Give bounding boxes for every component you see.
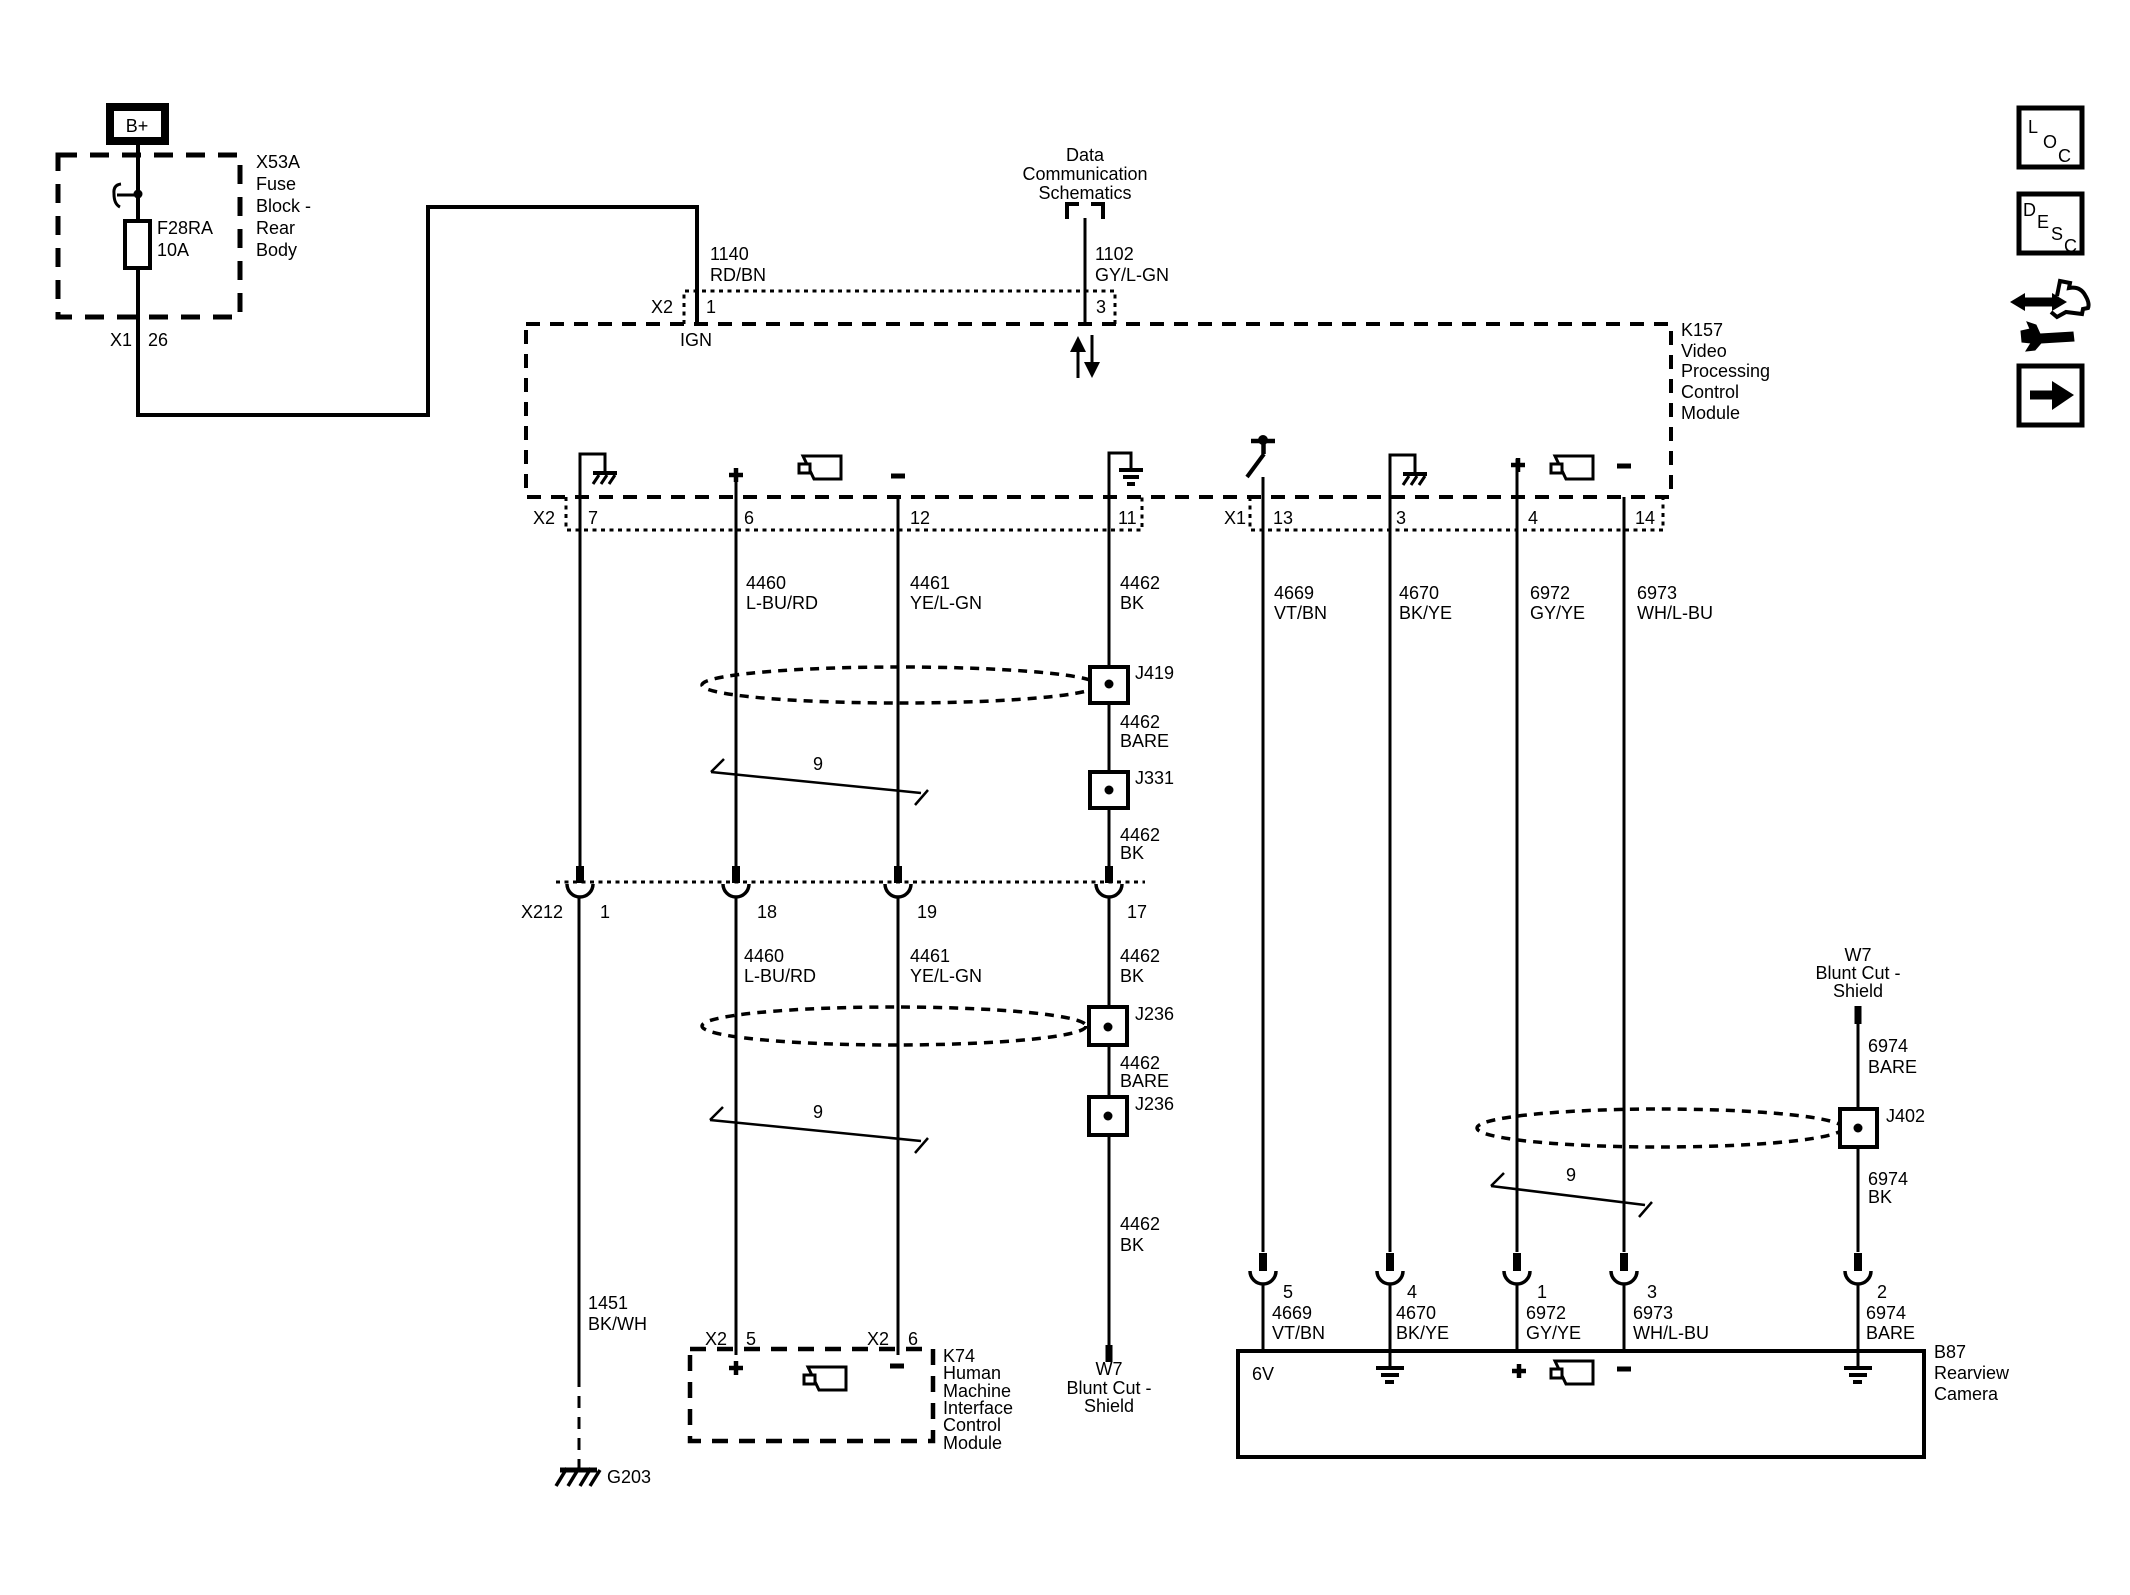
svg-text:Shield: Shield	[1833, 981, 1883, 1001]
svg-text:BK/YE: BK/YE	[1399, 603, 1452, 623]
svg-text:4669: 4669	[1272, 1303, 1312, 1323]
svg-text:BK: BK	[1120, 966, 1144, 986]
svg-text:6972: 6972	[1526, 1303, 1566, 1323]
svg-text:Control: Control	[943, 1415, 1001, 1435]
svg-text:4670: 4670	[1399, 583, 1439, 603]
svg-text:X2: X2	[651, 297, 673, 317]
svg-text:Processing: Processing	[1681, 361, 1770, 381]
svg-text:1102: 1102	[1095, 244, 1134, 264]
svg-text:X2: X2	[533, 508, 555, 528]
svg-text:9: 9	[1566, 1165, 1576, 1185]
svg-text:4462: 4462	[1120, 1214, 1160, 1234]
svg-text:18: 18	[757, 902, 777, 922]
svg-text:7: 7	[588, 508, 598, 528]
svg-text:Module: Module	[943, 1433, 1002, 1453]
svg-text:YE/L-GN: YE/L-GN	[910, 593, 982, 613]
svg-text:17: 17	[1127, 902, 1147, 922]
svg-text:6: 6	[744, 508, 754, 528]
svg-text:Fuse: Fuse	[256, 174, 296, 194]
svg-text:Shield: Shield	[1084, 1396, 1134, 1416]
svg-text:3: 3	[1396, 508, 1406, 528]
svg-text:W7: W7	[1845, 945, 1872, 965]
svg-text:BARE: BARE	[1866, 1323, 1915, 1343]
svg-text:Rear: Rear	[256, 218, 295, 238]
svg-text:RD/BN: RD/BN	[710, 265, 766, 285]
svg-text:Blunt Cut -: Blunt Cut -	[1066, 1378, 1151, 1398]
svg-text:BARE: BARE	[1868, 1057, 1917, 1077]
svg-text:3: 3	[1096, 297, 1106, 317]
svg-text:Schematics: Schematics	[1038, 183, 1131, 203]
svg-text:1: 1	[600, 902, 610, 922]
svg-text:Camera: Camera	[1934, 1384, 1999, 1404]
svg-text:6: 6	[908, 1329, 918, 1349]
svg-text:5: 5	[746, 1329, 756, 1349]
svg-text:J331: J331	[1135, 768, 1174, 788]
svg-text:26: 26	[148, 330, 168, 350]
svg-text:K157: K157	[1681, 320, 1723, 340]
svg-text:4669: 4669	[1274, 583, 1314, 603]
svg-text:W7: W7	[1096, 1359, 1123, 1379]
svg-text:X2: X2	[867, 1329, 889, 1349]
svg-text:13: 13	[1273, 508, 1293, 528]
svg-text:BK/YE: BK/YE	[1396, 1323, 1449, 1343]
svg-text:Rearview: Rearview	[1934, 1363, 2010, 1383]
svg-text:4460: 4460	[744, 946, 784, 966]
svg-text:4461: 4461	[910, 946, 950, 966]
svg-text:C: C	[2058, 146, 2071, 166]
svg-text:J419: J419	[1135, 663, 1174, 683]
svg-text:Data: Data	[1066, 145, 1105, 165]
svg-text:6973: 6973	[1637, 583, 1677, 603]
svg-text:X1: X1	[1224, 508, 1246, 528]
svg-text:VT/BN: VT/BN	[1272, 1323, 1325, 1343]
svg-text:4462: 4462	[1120, 825, 1160, 845]
svg-text:BK: BK	[1868, 1187, 1892, 1207]
svg-text:4462: 4462	[1120, 712, 1160, 732]
svg-text:6974: 6974	[1866, 1303, 1906, 1323]
svg-text:X212: X212	[521, 902, 563, 922]
svg-text:BARE: BARE	[1120, 1071, 1169, 1091]
svg-text:BK: BK	[1120, 1235, 1144, 1255]
svg-text:6972: 6972	[1530, 583, 1570, 603]
svg-text:19: 19	[917, 902, 937, 922]
svg-text:6974: 6974	[1868, 1036, 1908, 1056]
svg-text:Control: Control	[1681, 382, 1739, 402]
svg-text:Body: Body	[256, 240, 297, 260]
svg-text:IGN: IGN	[680, 330, 712, 350]
svg-text:1451: 1451	[588, 1293, 628, 1313]
svg-text:L-BU/RD: L-BU/RD	[746, 593, 818, 613]
svg-text:WH/L-BU: WH/L-BU	[1637, 603, 1713, 623]
svg-text:4460: 4460	[746, 573, 786, 593]
svg-text:4: 4	[1528, 508, 1538, 528]
svg-text:S: S	[2051, 224, 2063, 244]
svg-text:3: 3	[1647, 1282, 1657, 1302]
svg-text:Block -: Block -	[256, 196, 311, 216]
svg-text:WH/L-BU: WH/L-BU	[1633, 1323, 1709, 1343]
svg-text:14: 14	[1635, 508, 1655, 528]
svg-text:Video: Video	[1681, 341, 1727, 361]
svg-text:VT/BN: VT/BN	[1274, 603, 1327, 623]
svg-text:GY/YE: GY/YE	[1526, 1323, 1581, 1343]
svg-text:9: 9	[813, 754, 823, 774]
svg-text:J402: J402	[1886, 1106, 1925, 1126]
svg-text:6973: 6973	[1633, 1303, 1673, 1323]
svg-text:D: D	[2023, 200, 2036, 220]
svg-text:X1: X1	[110, 330, 132, 350]
svg-text:BK: BK	[1120, 593, 1144, 613]
svg-text:5: 5	[1283, 1282, 1293, 1302]
svg-text:X2: X2	[705, 1329, 727, 1349]
svg-text:1140: 1140	[710, 244, 749, 264]
svg-text:4462: 4462	[1120, 1053, 1160, 1073]
svg-text:E: E	[2037, 212, 2049, 232]
svg-text:BARE: BARE	[1120, 731, 1169, 751]
svg-text:Module: Module	[1681, 403, 1740, 423]
svg-text:BK: BK	[1120, 843, 1144, 863]
svg-text:6974: 6974	[1868, 1169, 1908, 1189]
svg-text:G203: G203	[607, 1467, 651, 1487]
svg-text:4462: 4462	[1120, 946, 1160, 966]
svg-text:C: C	[2064, 236, 2077, 256]
svg-text:B+: B+	[126, 116, 149, 136]
svg-text:4462: 4462	[1120, 573, 1160, 593]
svg-text:4670: 4670	[1396, 1303, 1436, 1323]
svg-text:B87: B87	[1934, 1342, 1966, 1362]
svg-text:9: 9	[813, 1102, 823, 1122]
svg-text:4461: 4461	[910, 573, 950, 593]
svg-text:1: 1	[1537, 1282, 1547, 1302]
svg-text:10A: 10A	[157, 240, 189, 260]
svg-text:J236: J236	[1135, 1094, 1174, 1114]
svg-text:YE/L-GN: YE/L-GN	[910, 966, 982, 986]
svg-text:Blunt Cut -: Blunt Cut -	[1815, 963, 1900, 983]
svg-text:12: 12	[910, 508, 930, 528]
svg-text:L: L	[2028, 117, 2038, 137]
svg-text:Communication: Communication	[1022, 164, 1147, 184]
svg-text:L-BU/RD: L-BU/RD	[744, 966, 816, 986]
svg-text:6V: 6V	[1252, 1364, 1274, 1384]
svg-text:1: 1	[706, 297, 716, 317]
svg-text:Human: Human	[943, 1363, 1001, 1383]
svg-text:4: 4	[1407, 1282, 1417, 1302]
svg-text:2: 2	[1877, 1282, 1887, 1302]
svg-text:BK/WH: BK/WH	[588, 1314, 647, 1334]
svg-text:11: 11	[1118, 508, 1137, 528]
svg-text:O: O	[2043, 132, 2057, 152]
svg-text:GY/L-GN: GY/L-GN	[1095, 265, 1169, 285]
svg-text:X53A: X53A	[256, 152, 300, 172]
svg-text:GY/YE: GY/YE	[1530, 603, 1585, 623]
svg-text:F28RA: F28RA	[157, 218, 213, 238]
svg-text:J236: J236	[1135, 1004, 1174, 1024]
